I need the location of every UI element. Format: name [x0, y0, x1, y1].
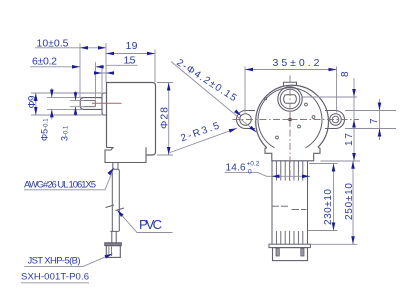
- motor can inner rim circle: [258, 88, 322, 148]
- svg-text:19: 19: [126, 40, 138, 52]
- shaft flat lines: [84, 100, 96, 106]
- svg-text:10±0.5: 10±0.5: [37, 37, 69, 49]
- motor can outer circle (front view): [256, 85, 329, 148]
- svg-text:2-Φ4.2±0.15: 2-Φ4.2±0.15: [174, 57, 238, 104]
- underline SXH: [21, 282, 89, 284]
- arrows 14.6: [272, 175, 280, 179]
- svg-text:3-0.1: 3-0.1: [60, 125, 70, 141]
- svg-text:0: 0: [248, 169, 252, 176]
- ext base bottom right: [321, 160, 361, 162]
- leader 2-R3.5: [170, 128, 237, 152]
- center mark: [288, 118, 292, 122]
- right mounting ear: [325, 111, 345, 129]
- arrows 3: [74, 92, 78, 100]
- XH connector (front view) flange: [269, 244, 310, 247]
- left ear hole: [240, 114, 252, 126]
- arrows 17: [352, 120, 356, 128]
- arrows 19: [106, 52, 114, 56]
- dim 8 + 17 line: [353, 78, 355, 161]
- cable jacket (side view): [112, 169, 119, 231]
- svg-text:Φ28: Φ28: [159, 107, 171, 129]
- shaft circle with flats: [284, 95, 297, 103]
- right ear hole: [330, 114, 342, 126]
- dim 250: [311, 161, 358, 245]
- svg-text:6±0.2: 6±0.2: [32, 55, 57, 67]
- arrows phi5: [50, 90, 54, 98]
- dim line phi5: [47, 88, 82, 120]
- arrows 10±0.5: [80, 46, 88, 50]
- svg-text:Φ9: Φ9: [27, 95, 38, 108]
- svg-text:1.5: 1.5: [124, 54, 136, 66]
- dim line 19: [106, 53, 155, 55]
- vertical centerline front view: [289, 76, 291, 182]
- ext lines top-left: [80, 43, 155, 100]
- arrows phi4.2: [234, 110, 241, 117]
- arrows 1.5: [94, 71, 102, 75]
- svg-text:8: 8: [340, 71, 351, 77]
- svg-text:PVC: PVC: [139, 217, 164, 232]
- plastic base block (side view): [105, 147, 146, 162]
- dim 7 line + ext: [345, 99, 396, 140]
- ribbon cable top section: [272, 161, 308, 244]
- svg-text:14.6: 14.6: [226, 163, 246, 174]
- arrows phi28: [167, 83, 171, 91]
- arrows 35: [245, 68, 253, 72]
- dim 14.6: [225, 173, 311, 177]
- dim line phi28: [157, 83, 173, 156]
- arrow 8: [352, 89, 356, 97]
- leader PVC: [117, 210, 173, 233]
- svg-text:+0.2: +0.2: [247, 161, 260, 168]
- shaft boss rings (front view): [278, 87, 302, 111]
- arrows 7: [378, 103, 382, 111]
- connector pins: [276, 248, 279, 256]
- dim line 3: [70, 91, 84, 116]
- arrow AWG: [107, 168, 114, 176]
- svg-text:7: 7: [369, 118, 380, 124]
- svg-text:35±0.2: 35±0.2: [273, 57, 320, 69]
- svg-text:17: 17: [344, 133, 355, 146]
- svg-text:Φ5-0.1: Φ5-0.1: [40, 118, 50, 141]
- top seam tab: [284, 82, 297, 86]
- face rivet dots: [305, 103, 308, 106]
- front base block: [265, 147, 320, 161]
- arrows phi9: [34, 93, 38, 101]
- leader JST: [24, 254, 112, 267]
- ribbon break dashes: [272, 206, 307, 209]
- dim 230: [308, 164, 338, 231]
- arrow R3.5: [229, 128, 237, 132]
- XH connector body: [273, 248, 308, 261]
- dim 35±0.2: [245, 67, 337, 113]
- svg-text:2-R3.5: 2-R3.5: [179, 120, 221, 144]
- arrow JST: [105, 254, 113, 259]
- shaft boss (side view): [102, 93, 107, 115]
- leader AWG: [24, 168, 114, 190]
- dim line phi9: [31, 93, 102, 115]
- narrow wire pair to connector: [110, 231, 119, 243]
- ext shaft center right: [303, 96, 358, 98]
- arrow PVC: [117, 210, 124, 217]
- arrows 230: [332, 164, 336, 172]
- wire stubs from base: [113, 163, 118, 170]
- svg-text:230±10: 230±10: [323, 189, 334, 225]
- dim line 1.5 + text leader: [94, 65, 138, 73]
- horizontal centerline front view: [233, 119, 360, 121]
- left mounting ear: [237, 111, 256, 129]
- dim line 6±0.2: [30, 66, 104, 68]
- motor shaft (side view): [80, 98, 102, 110]
- JST connector (side view): [105, 243, 122, 246]
- ribbon cable bottom section: [276, 231, 302, 244]
- dim line 10±0.5: [35, 47, 106, 49]
- svg-text:250±10: 250±10: [344, 183, 355, 220]
- svg-text:AWG#26 UL 1061X5: AWG#26 UL 1061X5: [24, 179, 96, 190]
- motor can body (side view): [107, 83, 156, 156]
- cable break ticks: [106, 205, 125, 211]
- svg-text:SXH-001T-P0.6: SXH-001T-P0.6: [21, 272, 89, 283]
- arrows 250: [351, 161, 355, 169]
- svg-text:JST XHP-5(B): JST XHP-5(B): [28, 256, 81, 267]
- leader 2-phi4.2: [171, 62, 257, 133]
- arrows 6±0.2: [72, 65, 80, 69]
- shaft centerline (side view): [92, 102, 122, 104]
